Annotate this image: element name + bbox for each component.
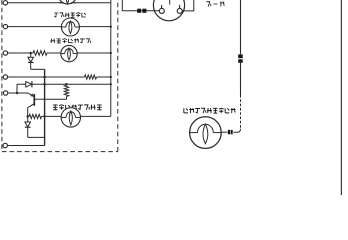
wire row4 (y=77) [8, 76, 85, 78]
diode D2 (horizontal, cathode right) [26, 82, 32, 88]
terminal T1 [3, 1, 7, 5]
label: radiator water level [50, 39, 55, 43]
wire row6 (y=145.5) [7, 145, 44, 147]
node bus1/row4 [110, 76, 112, 78]
gauge pin stud left [161, 5, 163, 8]
wire right bus lower (faint) [240, 95, 242, 129]
lamp L3 radiator [61, 45, 77, 61]
node battery-row/bus2 [43, 115, 46, 118]
resistor R3 (vertical) [64, 85, 68, 96]
wire D3 to bus2 [28, 136, 45, 138]
wire stub diode-row to row5 [16, 84, 18, 93]
label: engine-oil lamp [54, 13, 58, 17]
connector CN1 [137, 9, 141, 13]
transistor Q1 (PNP) [28, 93, 34, 96]
wire gauge left stub [122, 0, 159, 11]
node bus1/row2 [110, 25, 112, 27]
lamp L5 flasher [190, 117, 222, 149]
wire Q1 base lead [34, 98, 66, 100]
terminal T4 [3, 75, 7, 79]
wire Q1 collector down [27, 108, 29, 117]
resistor R4 [85, 75, 97, 79]
node diode-row/R3 top [65, 83, 68, 86]
diode D3 (vertical, cathode down) [27, 116, 29, 122]
terminal T3 [3, 51, 7, 55]
gauge terminal right [177, 8, 182, 13]
wire row2 (y=26.6) [8, 26, 111, 28]
resistor R1 [33, 51, 47, 56]
node bus1/diode-row [110, 83, 112, 85]
terminal T6 [3, 143, 7, 147]
gauge terminal left [159, 8, 164, 13]
wire row1 (top, y=2.8) [8, 2, 111, 4]
terminal T5 [3, 91, 7, 95]
node battery-row/collector [26, 115, 29, 118]
node row5 junction [16, 92, 19, 95]
gauge pin stud right [179, 5, 181, 8]
page edge line [340, 0, 342, 195]
label: battery fluid level [53, 105, 58, 110]
wire right bus upper [240, 0, 242, 54]
wire corner to flasher [233, 129, 240, 133]
wire gauge right stub [182, 0, 194, 11]
node diode-row/bus2 [43, 83, 46, 86]
wire diode-row (y=84.3) [17, 83, 111, 85]
bus1 vertical (x=110.8) [110, 0, 112, 116]
wire D1 to bus2 [31, 68, 45, 70]
dashed enclosure box [2, 0, 118, 152]
diode D1 (vertical, cathode down) [30, 53, 32, 57]
node bus1/row3 [110, 52, 112, 54]
wire right bus middle [240, 63, 242, 95]
lamp L1 (top, cut off) [58, 0, 76, 4]
lamp L2 engine oil [61, 18, 79, 36]
bus2 vertical (x=44.6) [44, 69, 46, 145]
terminal T2 [3, 24, 7, 28]
wire battery row (y=116.4) [28, 115, 29, 117]
label: flasher lamp left [184, 108, 188, 113]
wire row5 (y=93) [8, 92, 28, 94]
resistor R2 [29, 114, 42, 118]
connector CN2 [238, 54, 243, 58]
gauge needle stem [169, 0, 171, 5]
wire row3 (y=53) [8, 52, 33, 54]
gauge U1 body [153, 0, 184, 21]
label: gauge [206, 2, 211, 7]
node row3/D1 junction [29, 52, 32, 55]
lamp L4 battery [61, 108, 80, 127]
node row4/bus2 [43, 76, 46, 79]
connector CN3 [228, 130, 230, 134]
